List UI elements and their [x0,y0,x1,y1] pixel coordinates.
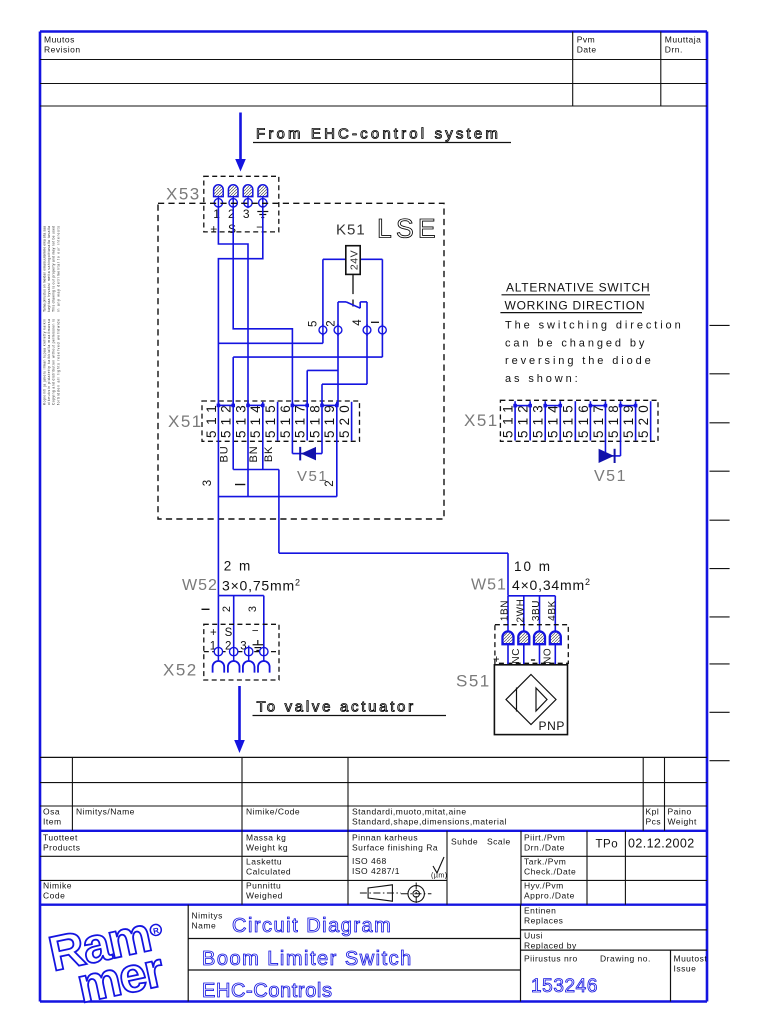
svg-text:515: 515 [561,404,576,438]
svg-text:Piirt./Pvm: Piirt./Pvm [524,833,565,843]
svg-text:Uusi: Uusi [524,931,543,941]
svg-text:+: + [210,627,217,639]
svg-text:1: 1 [213,207,220,221]
svg-text:Products: Products [43,843,81,853]
svg-text:WORKING DIRECTION: WORKING DIRECTION [505,299,646,313]
svg-text:can be changed by: can be changed by [505,337,647,349]
svg-text:5: 5 [308,321,320,327]
svg-text:Kpl: Kpl [646,807,660,817]
svg-text:Scale: Scale [487,837,511,847]
svg-text:+: + [491,656,503,662]
svg-text:Weight: Weight [668,817,697,827]
svg-text:X51: X51 [464,411,499,430]
svg-text:Muuttaja: Muuttaja [665,35,702,45]
svg-text:LSE: LSE [377,214,440,244]
svg-text:517: 517 [293,404,308,438]
svg-text:Hyv./Pvm: Hyv./Pvm [524,881,564,891]
svg-text:Check./Date: Check./Date [524,867,576,877]
svg-text:BU: BU [219,446,231,463]
svg-text:Punnittu: Punnittu [246,881,281,891]
svg-text:517: 517 [591,404,606,438]
svg-text:(µm): (µm) [431,873,448,880]
svg-text:511: 511 [204,404,219,438]
svg-text:BK: BK [263,446,275,462]
svg-text:X52: X52 [163,661,198,680]
svg-text:Boom Limiter Switch: Boom Limiter Switch [202,948,413,970]
svg-text:PNP: PNP [539,719,565,733]
svg-text:Appro./Date: Appro./Date [524,891,575,901]
svg-text:Surface finishing Ra: Surface finishing Ra [352,843,438,853]
svg-text:4: 4 [352,319,364,326]
svg-text:2WH: 2WH [516,598,527,622]
svg-text:oikeuksin pidatetty kaikkialla: oikeuksin pidatetty kaikkialla maailmass… [47,319,51,405]
svg-text:Drawing no.: Drawing no. [600,954,651,964]
svg-text:ALTERNATIVE SWITCH: ALTERNATIVE SWITCH [506,281,650,295]
svg-text:Pinnan karheus: Pinnan karheus [352,833,418,843]
svg-text:X53: X53 [166,185,201,204]
svg-text:Kopiointi ja jakelu ilman lupa: Kopiointi ja jakelu ilman lupaa kiellett… [43,319,47,405]
svg-text:Tark./Pvm: Tark./Pvm [524,857,566,867]
svg-text:Nimitys/Name: Nimitys/Name [76,807,135,817]
svg-text:2: 2 [326,320,338,326]
svg-text:519: 519 [322,404,337,438]
svg-text:4BK: 4BK [547,600,558,621]
svg-text:3×0,75mm2: 3×0,75mm2 [222,578,301,594]
svg-text:Weighed: Weighed [246,891,283,901]
svg-text:−: − [252,626,259,638]
svg-text:Massa kg: Massa kg [246,833,286,843]
svg-text:2: 2 [324,480,336,486]
svg-text:TPo: TPo [596,839,619,851]
svg-text:kayttaa hyvaksi meita vahingoi: kayttaa hyvaksi meita vahingoittavalla t… [47,226,51,312]
svg-text:Weight kg: Weight kg [246,843,288,853]
svg-text:Nimike/Code: Nimike/Code [246,807,300,817]
svg-text:Tama piirustus on meidan omais: Tama piirustus on meidan omaisuutemme ei… [43,226,47,312]
svg-text:Code: Code [43,891,65,901]
svg-text:516: 516 [576,404,591,438]
svg-text:Issue: Issue [674,964,697,974]
svg-text:513: 513 [233,404,248,438]
svg-text:3: 3 [247,606,259,612]
svg-text:513: 513 [531,404,546,438]
svg-text:Date: Date [577,45,597,55]
svg-text:24V: 24V [349,250,361,270]
svg-text:in any way detrimental to our: in any way detrimental to our interests [56,226,60,312]
svg-text:Drn./Date: Drn./Date [524,843,565,853]
svg-text:1BN: 1BN [500,600,511,621]
svg-text:Drn.: Drn. [665,45,683,55]
svg-text:3BU: 3BU [531,600,542,621]
svg-text:2: 2 [228,207,235,221]
svg-text:From EHC-control system: From EHC-control system [256,126,501,143]
svg-text:514: 514 [248,404,263,438]
svg-text:Name: Name [192,921,217,931]
svg-text:BN: BN [248,446,260,463]
svg-text:Pvm: Pvm [577,35,596,45]
svg-text:Laskettu: Laskettu [246,857,282,867]
svg-text:3: 3 [243,207,250,221]
svg-text:EHC-Controls: EHC-Controls [202,980,333,1002]
svg-text:Nimitys: Nimitys [192,911,223,921]
svg-text:520: 520 [636,404,651,438]
svg-text:514: 514 [546,404,561,438]
svg-text:Paino: Paino [668,807,692,817]
svg-text:518: 518 [606,404,621,438]
svg-text:Entinen: Entinen [524,906,556,916]
svg-text:Replaced by: Replaced by [524,941,577,951]
svg-text:02.12.2002: 02.12.2002 [628,837,695,851]
svg-text:Tuotteet: Tuotteet [43,833,78,843]
svg-text:Muutos: Muutos [44,35,75,45]
svg-text:520: 520 [337,404,352,438]
svg-text:Revision: Revision [44,45,81,55]
svg-text:3: 3 [202,480,214,486]
svg-text:This drawing is our property a: This drawing is our property and may not… [52,226,56,312]
svg-text:NC: NC [511,648,522,664]
svg-text:Circuit Diagram: Circuit Diagram [232,915,392,937]
svg-text:Replaces: Replaces [524,916,563,926]
svg-text:K51: K51 [336,222,366,239]
svg-text:4×0,34mm2: 4×0,34mm2 [512,577,591,593]
svg-text:511: 511 [501,404,516,438]
svg-text:The switching direction: The switching direction [505,320,684,332]
svg-text:ISO 468: ISO 468 [352,856,387,866]
svg-text:Calculated: Calculated [246,867,291,877]
svg-text:ISO 4287/1: ISO 4287/1 [352,866,400,876]
svg-text:Standardi,muoto,mitat,aine: Standardi,muoto,mitat,aine [352,807,467,817]
svg-text:10 m: 10 m [514,559,552,574]
svg-text:X51: X51 [168,412,203,431]
svg-text:Item: Item [43,817,62,827]
svg-text:2: 2 [221,606,233,612]
svg-text:Suhde: Suhde [451,837,478,847]
svg-text:515: 515 [263,404,278,438]
svg-text:W52: W52 [182,577,218,594]
svg-text:+: + [210,222,217,236]
svg-text:512: 512 [219,404,234,438]
svg-text:S: S [225,627,233,639]
svg-text:Pcs: Pcs [646,817,662,827]
svg-text:To valve actuator: To valve actuator [257,699,416,716]
svg-text:V51: V51 [594,468,627,485]
svg-text:516: 516 [278,404,293,438]
svg-text:2 m: 2 m [224,559,253,574]
svg-text:NO: NO [543,648,554,664]
svg-text:Standard,shape,dimensions,mate: Standard,shape,dimensions,material [352,817,507,827]
svg-text:forbidden all rights reserved: forbidden all rights reserved worldwide [56,319,60,405]
svg-text:Piirustus nro: Piirustus nro [524,954,578,964]
svg-text:Osa: Osa [43,807,60,817]
svg-text:518: 518 [307,404,322,438]
svg-text:519: 519 [621,404,636,438]
svg-text:W51: W51 [471,577,507,594]
svg-text:reversing the diode: reversing the diode [505,355,654,367]
svg-text:512: 512 [516,404,531,438]
svg-text:S51: S51 [456,672,491,691]
svg-text:as shown:: as shown: [505,373,581,385]
svg-text:Nimike: Nimike [43,881,72,891]
svg-text:153246: 153246 [531,976,598,997]
svg-text:Copying and distribution witho: Copying and distribution without permiss… [52,319,56,405]
svg-text:Muutost: Muutost [674,954,708,964]
svg-text:S: S [228,222,236,236]
